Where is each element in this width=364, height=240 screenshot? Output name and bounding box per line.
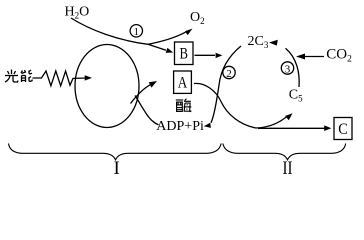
node light energy 光能 (drawn strokes) bbox=[5, 70, 32, 83]
wire CO2 arrow bbox=[301, 56, 324, 58]
svg-text:I: I bbox=[114, 158, 120, 179]
box B bbox=[175, 42, 194, 65]
wire B arrow to cycle bbox=[195, 54, 216, 56]
wire branch to B box bbox=[148, 44, 166, 50]
node enzyme 酶 (drawn strokes) bbox=[176, 99, 192, 112]
wire to C box bbox=[258, 127, 328, 129]
svg-text:ADP+Pi: ADP+Pi bbox=[156, 119, 204, 134]
brace I bbox=[9, 144, 222, 160]
wire ADP+Pi return from dark reactions bbox=[211, 46, 241, 123]
brace II bbox=[223, 144, 346, 160]
ellipse light-reaction loop bbox=[75, 45, 139, 128]
wire ATP into dark reactions bottom arc to C5 bbox=[194, 83, 256, 128]
svg-text:2: 2 bbox=[226, 68, 232, 80]
label circled 1 bbox=[130, 25, 142, 37]
wire branch to O2 bbox=[148, 32, 186, 44]
wire C5 to 2C3 arc bbox=[286, 48, 300, 87]
label circled 2 bbox=[223, 66, 235, 78]
wire water-split curve from H2O bbox=[71, 18, 148, 44]
wire tail to ADP+Pi bbox=[135, 96, 159, 125]
wire zigzag light arrow bbox=[33, 71, 88, 86]
svg-text:A: A bbox=[178, 74, 188, 91]
label circled 3 bbox=[281, 62, 293, 74]
svg-text:B: B bbox=[179, 46, 188, 63]
svg-text:1: 1 bbox=[134, 26, 140, 38]
box A bbox=[174, 71, 192, 93]
wire arrow toward A (ATP out) bbox=[131, 85, 151, 104]
svg-text:C: C bbox=[338, 121, 348, 138]
svg-text:3: 3 bbox=[285, 63, 291, 75]
svg-text:II: II bbox=[283, 158, 293, 179]
box C bbox=[334, 118, 352, 140]
